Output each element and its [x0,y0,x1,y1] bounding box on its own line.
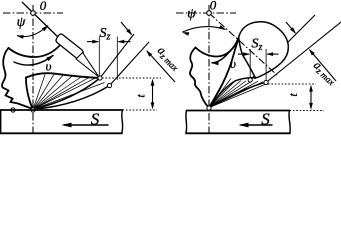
svg-text:ψ: ψ [17,15,26,30]
svg-text:0: 0 [40,0,47,13]
svg-text:ψ: ψ [187,7,196,22]
svg-text:υ: υ [230,56,236,71]
svg-text:S: S [261,110,270,129]
svg-text:0: 0 [210,0,217,13]
svg-text:S: S [91,110,100,129]
svg-text:υ: υ [46,59,52,74]
